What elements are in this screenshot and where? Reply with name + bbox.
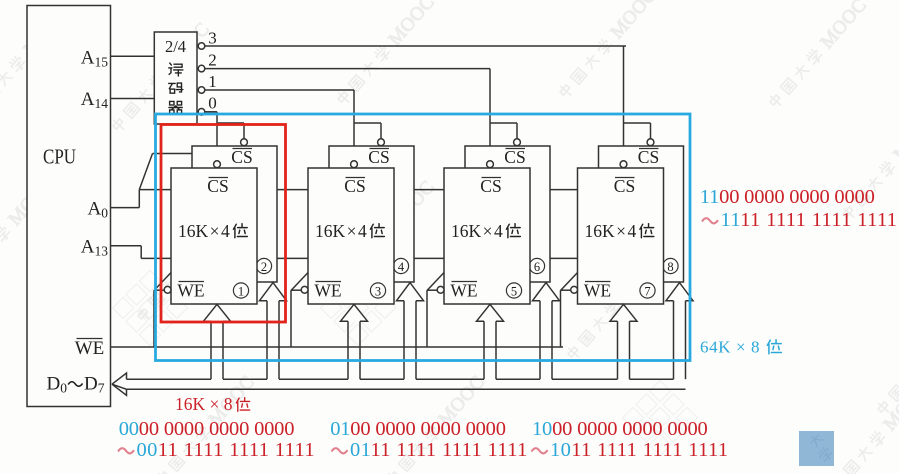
svg-text:CS: CS <box>207 176 228 196</box>
svg-text:CS: CS <box>344 176 365 196</box>
svg-text:0: 0 <box>208 94 217 113</box>
svg-text:0011 1111 1111 1111: 0011 1111 1111 1111 <box>137 439 315 461</box>
svg-text:CS: CS <box>614 176 635 196</box>
svg-text:1100 0000 0000 0000: 1100 0000 0000 0000 <box>700 186 875 208</box>
svg-text:CS: CS <box>504 147 525 167</box>
svg-text:7: 7 <box>644 285 650 299</box>
svg-text:1: 1 <box>208 72 217 91</box>
svg-text:CS: CS <box>480 176 501 196</box>
svg-text:WE: WE <box>177 281 204 301</box>
svg-text:WE: WE <box>314 281 341 301</box>
svg-text:1000 0000 0000 0000: 1000 0000 0000 0000 <box>532 418 708 440</box>
svg-text:1011 1111 1111 1111: 1011 1111 1111 1111 <box>550 439 728 461</box>
svg-text:16K×4: 16K×4 <box>451 221 503 241</box>
svg-text:8: 8 <box>667 260 673 274</box>
svg-text:16K×4: 16K×4 <box>585 221 637 241</box>
svg-text:4: 4 <box>398 260 405 274</box>
svg-text:64K × 8: 64K × 8 <box>700 338 760 357</box>
svg-text:16K × 8: 16K × 8 <box>175 394 233 414</box>
svg-text:6: 6 <box>534 260 540 274</box>
svg-text:1: 1 <box>238 285 244 299</box>
svg-text:2: 2 <box>208 51 217 70</box>
svg-text:WE: WE <box>75 338 105 359</box>
svg-text:CPU: CPU <box>43 145 76 169</box>
svg-text:0100 0000 0000 0000: 0100 0000 0000 0000 <box>330 418 506 440</box>
svg-text:16K×4: 16K×4 <box>178 221 230 241</box>
svg-text:WE: WE <box>450 281 477 301</box>
svg-text:3: 3 <box>208 29 217 48</box>
svg-text:CS: CS <box>231 147 252 167</box>
svg-text:2/4: 2/4 <box>165 37 186 56</box>
svg-text:2: 2 <box>261 260 267 274</box>
svg-text:3: 3 <box>375 285 381 299</box>
svg-text:CS: CS <box>638 147 659 167</box>
svg-text:1111 1111 1111 1111: 1111 1111 1111 1111 <box>721 209 898 231</box>
svg-text:0111 1111 1111 1111: 0111 1111 1111 1111 <box>350 439 528 461</box>
svg-text:5: 5 <box>511 285 517 299</box>
svg-text:16K×4: 16K×4 <box>315 221 367 241</box>
svg-text:0000 0000 0000 0000: 0000 0000 0000 0000 <box>119 418 295 440</box>
svg-text:CS: CS <box>368 147 389 167</box>
svg-text:WE: WE <box>584 281 611 301</box>
